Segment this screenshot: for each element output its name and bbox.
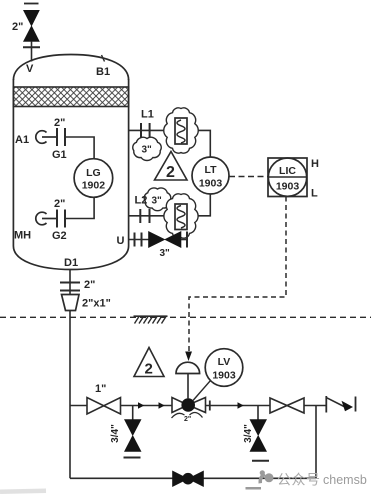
battery limit line (dashed) bbox=[0, 316, 371, 318]
main pipe: horizontal run bbox=[70, 405, 326, 407]
wire U nozzle bbox=[129, 239, 149, 241]
inline seal element L2 bbox=[175, 204, 187, 230]
svg-text:L: L bbox=[311, 188, 318, 200]
flange below vent valve bbox=[23, 46, 40, 48]
svg-text:2: 2 bbox=[166, 164, 175, 181]
tick after LV bbox=[209, 401, 211, 411]
level transmitter LT 1903 bbox=[192, 157, 229, 194]
svg-text:3": 3" bbox=[142, 145, 153, 156]
demister pad (crosshatch) bbox=[13, 87, 128, 107]
valve 3/4" drain 2 (closed, filled) bbox=[250, 420, 267, 452]
valve bypass (globe, closed) bbox=[173, 471, 204, 487]
svg-text:公众号: 公众号 bbox=[277, 472, 321, 488]
svg-text:L1: L1 bbox=[141, 109, 154, 121]
valve (gate, open) upstream bbox=[87, 398, 121, 415]
valve (gate, open) downstream bbox=[270, 398, 304, 413]
wire G1 to LG bbox=[65, 137, 94, 159]
svg-text:2": 2" bbox=[84, 279, 95, 291]
svg-text:3": 3" bbox=[152, 196, 163, 207]
flow arrow 1 bbox=[138, 402, 144, 408]
svg-text:2": 2" bbox=[184, 416, 191, 423]
svg-text:1": 1" bbox=[95, 383, 106, 395]
revision cloud around 3" L2 bbox=[144, 188, 171, 211]
level gauge LG 1902 bbox=[74, 159, 113, 198]
wire G2 to LG bbox=[65, 197, 94, 218]
svg-text:chemsb: chemsb bbox=[323, 473, 367, 487]
valve 3" U (closed, filled) bbox=[149, 232, 182, 248]
bypass right riser bbox=[315, 406, 317, 479]
end-of-line break with arrow bbox=[326, 396, 355, 413]
actuator diaphragm dome bbox=[176, 362, 200, 373]
svg-text:2": 2" bbox=[54, 117, 65, 129]
instrument tag LV 1903 bbox=[193, 349, 243, 401]
svg-text:2: 2 bbox=[145, 361, 153, 378]
flange pair G2 bbox=[57, 210, 65, 228]
svg-text:LV: LV bbox=[218, 356, 231, 368]
revision cloud around 3" L1 bbox=[133, 137, 161, 160]
reducer 2"x1" bbox=[62, 295, 80, 311]
svg-text:B1: B1 bbox=[96, 66, 110, 78]
svg-text:L2: L2 bbox=[135, 195, 148, 207]
signal wire LIC to LV (dashed) bbox=[189, 197, 286, 352]
svg-text:G1: G1 bbox=[52, 149, 67, 161]
controller LIC 1903 (shared display) bbox=[268, 158, 307, 197]
svg-text:H: H bbox=[311, 158, 319, 170]
main pipe: vertical from reducer down to bypass bbox=[69, 311, 71, 479]
svg-text:3/4": 3/4" bbox=[110, 424, 121, 443]
svg-text:3": 3" bbox=[160, 248, 171, 259]
flange pair L1 bbox=[141, 123, 150, 138]
revision triangle 2 (upper) bbox=[155, 152, 188, 182]
vent open end line bbox=[24, 3, 39, 5]
wire vent valve to nozzle V bbox=[31, 41, 33, 61]
svg-text:LIC: LIC bbox=[279, 165, 296, 177]
svg-text:A1: A1 bbox=[15, 134, 29, 146]
svg-text:3/4": 3/4" bbox=[243, 424, 254, 443]
drain branch 2 wire bbox=[257, 406, 259, 420]
svg-text:2": 2" bbox=[54, 198, 65, 210]
svg-text:U: U bbox=[117, 235, 125, 247]
control valve LV body bbox=[172, 398, 206, 413]
svg-text:MH: MH bbox=[14, 230, 31, 242]
svg-text:V: V bbox=[26, 63, 34, 75]
svg-text:D1: D1 bbox=[64, 257, 78, 269]
drain 1 end bar bbox=[124, 457, 141, 459]
revision cloud around L2 seal bbox=[164, 194, 198, 238]
inline seal element L1 bbox=[175, 118, 187, 144]
revision cloud around L1 seal bbox=[164, 108, 199, 153]
flow arrow 2 bbox=[159, 402, 165, 408]
drain 2 end bar bbox=[252, 460, 269, 462]
drain branch 1 wire bbox=[132, 406, 134, 420]
gauge connection G2 (capped) bbox=[36, 212, 56, 225]
svg-text:1902: 1902 bbox=[82, 180, 106, 192]
signal wire LT to LIC (dashed) bbox=[229, 176, 268, 178]
valve 2" vent (normally closed, filled) bbox=[24, 10, 40, 41]
failure position marks bbox=[172, 413, 203, 418]
valve 3/4" drain 1 (closed, filled) bbox=[125, 420, 142, 452]
gauge connection G1 (capped) bbox=[36, 131, 56, 144]
revision triangle 2 (lower) bbox=[134, 348, 164, 378]
bypass bottom run bbox=[70, 477, 316, 479]
wire L1 to LT bbox=[129, 130, 211, 157]
watermark logo bbox=[246, 470, 274, 489]
svg-text:LG: LG bbox=[86, 167, 101, 179]
svg-text:G2: G2 bbox=[52, 230, 67, 242]
grade / ground symbol bbox=[134, 316, 168, 323]
control valve stem bbox=[187, 374, 189, 400]
signal arrowhead at LV actuator bbox=[185, 352, 192, 362]
wire D1 down bbox=[69, 270, 71, 295]
bottom-left scan smudge bbox=[0, 489, 46, 494]
flange pair L2 bbox=[140, 209, 149, 223]
svg-text:LT: LT bbox=[204, 164, 217, 176]
wire L2 to LT bbox=[129, 194, 211, 216]
svg-text:2": 2" bbox=[12, 21, 23, 33]
flow arrow 3 bbox=[238, 402, 244, 408]
svg-text:1903: 1903 bbox=[276, 181, 300, 193]
vessel shell bbox=[13, 55, 128, 270]
svg-text:2"x1": 2"x1" bbox=[82, 298, 111, 310]
nozzle B1 tick on head bbox=[102, 55, 105, 62]
flange pair U bbox=[135, 233, 142, 247]
flange pair G1 bbox=[57, 128, 65, 146]
wire and end flange U bbox=[181, 232, 187, 248]
svg-text:1903: 1903 bbox=[199, 178, 223, 190]
flange pair D1 bbox=[60, 283, 80, 291]
svg-text:1903: 1903 bbox=[212, 370, 236, 382]
